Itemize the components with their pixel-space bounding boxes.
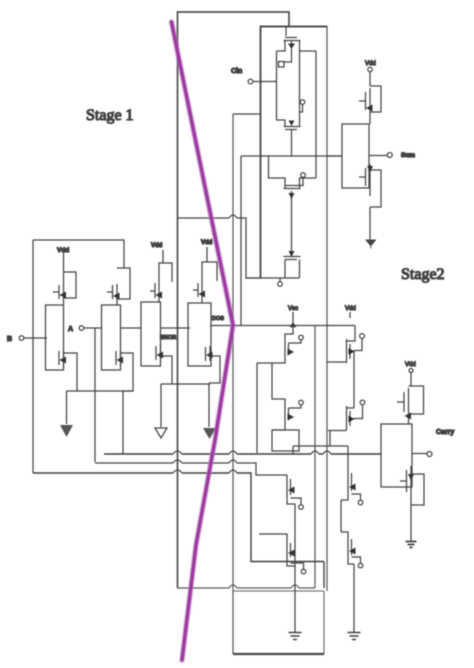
ground arrow col1	[60, 425, 73, 437]
vdd stub col1	[63, 252, 65, 270]
node DOS output long wire y325	[210, 325, 355, 327]
vdd stub col4	[206, 247, 208, 262]
rail x354 M2 to M4	[353, 351, 355, 409]
wire A to col2	[84, 327, 102, 329]
wire y463 A to stage2 with hops	[95, 463, 287, 475]
carry inverter box	[381, 424, 412, 487]
hop y218 over V2	[229, 215, 237, 218]
Cin terminal	[248, 79, 253, 84]
transistor N6 nmos mid-left row3	[287, 475, 303, 509]
inverter box col2	[102, 305, 121, 370]
transistor P1 col1 pmos	[53, 270, 76, 305]
transistor N9 nmos mid-right row4	[341, 532, 363, 568]
transistor M3 pmos mid-left row2	[272, 363, 303, 430]
node wire x241 feedback rail	[240, 156, 242, 326]
transistor N10 carry nmos	[400, 466, 424, 505]
hop carry over V1	[173, 451, 182, 454]
svg-text:DOS: DOS	[212, 316, 224, 322]
wire y473 B to stage2 with hops	[33, 473, 324, 588]
wire y114 V2 to Cin box	[233, 113, 261, 115]
svg-text:Vsc: Vsc	[288, 306, 298, 312]
transistor N3 col3 nmos	[156, 344, 172, 384]
A rail down	[94, 328, 96, 462]
mid rail T3 to T4	[291, 212, 293, 248]
ground symbol mid-right	[348, 633, 361, 640]
svg-text:Vdd: Vdd	[365, 61, 376, 67]
hop carry over V5	[311, 451, 319, 454]
svg-text:Vdd: Vdd	[151, 243, 163, 249]
wire loop bottoms col1-col2	[77, 390, 133, 392]
Carry terminal	[427, 452, 432, 457]
N4 source down	[208, 383, 210, 427]
left rail T1 to T2	[276, 82, 278, 121]
step wire y446	[293, 446, 348, 454]
vdd stub sum	[369, 72, 371, 86]
transistor N2 col2 nmos	[116, 350, 133, 391]
inverter box col4	[188, 303, 211, 366]
transistor M2 pmos mid-right row1	[327, 326, 364, 364]
transistor N1 col1 nmos	[59, 349, 77, 391]
ground col3 open arrow	[155, 428, 167, 438]
hop carry over V4	[323, 451, 331, 454]
rail x295 to ground	[294, 504, 296, 632]
hop y588 over V2	[229, 585, 237, 588]
svg-text:Vdd: Vdd	[201, 240, 213, 246]
long vertical V5	[314, 326, 316, 588]
P6 drain to carry box	[408, 418, 410, 424]
svg-text:A: A	[68, 326, 73, 333]
transistor N4 col4 nmos	[206, 346, 221, 383]
svg-text:B: B	[7, 336, 12, 343]
transistor N5 sum nmos	[359, 164, 381, 207]
hop y463 over V2	[229, 460, 237, 463]
rail x257	[256, 363, 258, 453]
hop carry over V2	[229, 451, 237, 454]
vdd stub carry	[410, 373, 412, 386]
transistor T2 nmos	[277, 51, 305, 156]
transistor T1 pmos top of Cin box	[277, 26, 317, 67]
stage1 top rail	[33, 240, 124, 268]
hop y473 over V2	[229, 470, 237, 473]
N10 source down	[410, 505, 412, 541]
transistor P3 col3 pmos	[150, 263, 172, 302]
node A terminal	[79, 326, 84, 331]
wire col3 to col4	[161, 327, 191, 329]
ground arrow sum	[365, 240, 377, 247]
inverter box col1	[46, 305, 64, 370]
wire y588 with hops	[178, 587, 316, 589]
N5 source down	[369, 207, 371, 240]
transistor T3 pmos second pair	[269, 156, 317, 212]
output node wire y156	[241, 155, 342, 157]
transistor N8 nmos mid-right row3	[341, 446, 363, 505]
hop y588 over x295 rail	[291, 585, 299, 588]
outer box stage2 top-left	[178, 12, 290, 588]
svg-text:Vdd: Vdd	[405, 362, 416, 368]
transistor P4 col4 pmos	[193, 262, 217, 303]
vsc stub	[292, 312, 294, 326]
transistor M4 pmos mid-right row2	[328, 400, 365, 446]
svg-text:Stage2: Stage2	[401, 266, 445, 283]
input B terminal	[19, 336, 24, 341]
transistor P2 col2 pmos	[107, 268, 130, 305]
N3 source down	[160, 384, 162, 427]
svg-text:BNOR: BNOR	[160, 335, 176, 341]
transistor M1 pmos mid-left row1	[257, 326, 303, 363]
bottom box edge	[233, 591, 324, 654]
P5 drain to sum box	[369, 114, 371, 124]
ground arrow col4	[203, 428, 216, 439]
long vertical right edge V4	[326, 26, 328, 591]
wire Cin into box	[253, 51, 277, 82]
wire y218 with hop and corner to Cin box bottom	[178, 218, 261, 278]
svg-text:Sum: Sum	[401, 152, 415, 159]
vdd terminal carry	[409, 369, 413, 373]
right rail T1 down to output node	[315, 51, 317, 156]
inverter box col3	[141, 302, 161, 366]
svg-text:Vdd: Vdd	[345, 306, 356, 312]
carry line y454 with hops	[104, 453, 381, 455]
rail x354 to ground	[353, 564, 355, 632]
N2 source down to carry line	[122, 391, 124, 454]
pen mark purple line	[172, 22, 234, 660]
output wire Sum	[369, 155, 387, 157]
transistor P6 carry pmos	[397, 386, 424, 420]
Cin box top and left edge	[261, 27, 328, 279]
bottom box thick bottom edge	[233, 653, 324, 655]
transistor N7 nmos mid-left row4	[259, 534, 306, 574]
wire loop bottoms col3-col4	[172, 383, 210, 385]
wire y278 bottom of Cin box	[246, 277, 300, 279]
svg-text:Cin: Cin	[231, 68, 242, 75]
hop y463 over V1	[173, 460, 182, 463]
long vertical V2	[232, 114, 234, 654]
N1 source down	[66, 391, 68, 424]
sum inverter box	[342, 124, 369, 188]
Sum terminal	[387, 153, 392, 158]
hop y473 over V1	[173, 470, 182, 473]
small box below M3	[272, 430, 299, 451]
wire col2 to col3	[121, 327, 142, 329]
vdd mid stub	[349, 312, 351, 318]
junction dot purple apex node	[231, 324, 234, 327]
output wire Carry	[412, 453, 427, 455]
transistor T4 nmos second pair	[278, 248, 301, 286]
svg-text:Carry: Carry	[436, 429, 454, 436]
input wire to sum box	[327, 155, 342, 157]
vdd terminal sum	[368, 67, 372, 71]
vdd stub col3	[162, 250, 164, 263]
ground symbol carry open	[406, 542, 417, 548]
transistor P5 sum pmos	[359, 86, 381, 114]
rail x341 N8 to N9	[340, 500, 342, 532]
wire B to inverter 1	[24, 337, 47, 339]
svg-text:Stage 1: Stage 1	[86, 107, 134, 124]
junction dot x293	[290, 322, 296, 327]
stage1 left rail	[32, 240, 34, 473]
ground symbol mid-left	[289, 633, 302, 640]
